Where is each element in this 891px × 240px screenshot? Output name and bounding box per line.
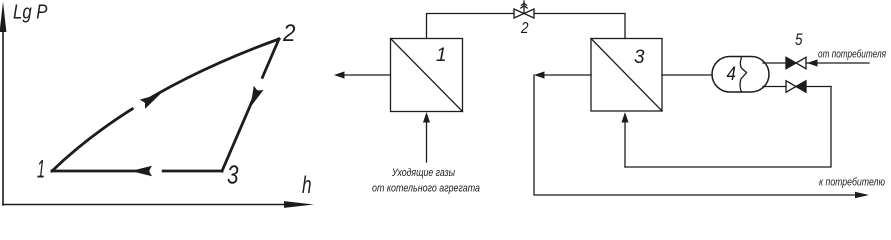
wire down and to consumer arrow — [534, 75, 857, 195]
wire from exchanger 1 to valve 2 (top bus left) — [427, 14, 515, 39]
arrowhead to consumer — [855, 192, 869, 198]
arrowhead from consumer — [807, 59, 818, 66]
x-axis h — [3, 204, 288, 206]
wire exchanger 3 to accumulator 4 — [662, 74, 712, 76]
y-axis Lg P — [2, 28, 4, 205]
heat exchanger 3 body — [591, 39, 662, 112]
svg-text:3: 3 — [634, 47, 645, 68]
svg-text:h: h — [302, 172, 312, 199]
svg-text:1: 1 — [37, 156, 45, 184]
flow arrow on curve 1-2 — [134, 89, 163, 112]
wire flue gas inlet below exchanger 1 — [426, 121, 428, 162]
wire valve 5 bottom to return run — [806, 86, 831, 88]
svg-text:Уходящие газы: Уходящие газы — [391, 167, 455, 179]
svg-text:5: 5 — [795, 31, 803, 49]
arrowhead gas outlet — [334, 71, 345, 78]
heat exchanger 1 diagonal — [391, 39, 463, 112]
svg-text:2: 2 — [520, 20, 529, 37]
svg-text:Lg P: Lg P — [13, 2, 48, 24]
process line 3-1 — [52, 170, 222, 173]
arrowhead flue gas inlet — [423, 112, 430, 123]
arrowhead supply out — [534, 71, 545, 78]
x-axis arrowhead — [284, 201, 314, 208]
wire accumulator to valve 5 bottom — [763, 86, 786, 88]
accumulator 4 level wave — [740, 57, 746, 92]
accumulator 4 body — [712, 57, 769, 93]
wire return bottom run — [625, 87, 831, 168]
wire from consumer — [806, 62, 869, 64]
svg-text:от котельного агрегата: от котельного агрегата — [372, 183, 480, 195]
flow arrow on line 2-3 — [245, 80, 266, 109]
valve 2 body — [514, 9, 534, 18]
heat exchanger 3 diagonal — [591, 39, 662, 112]
wire gas outlet left of exchanger 1 — [343, 74, 391, 76]
svg-text:2: 2 — [282, 20, 295, 47]
process line 2-3 — [222, 39, 279, 171]
svg-text:1: 1 — [436, 45, 447, 66]
heat exchanger 1 body — [391, 39, 463, 112]
arrowhead return inlet — [622, 112, 629, 123]
process curve 1-2 — [52, 39, 279, 171]
y-axis arrowhead — [0, 2, 6, 33]
wire from valve 2 to exchanger 3 (top bus right) — [534, 14, 625, 39]
valve 5 bottom body — [786, 81, 806, 92]
svg-text:к потребителю: к потребителю — [819, 177, 885, 189]
flow arrow on line 3-1 — [131, 166, 159, 177]
wire accumulator to valve 5 top — [763, 62, 786, 64]
valve 5 top body — [786, 57, 806, 68]
svg-text:4: 4 — [727, 64, 737, 85]
wire supply out of exchanger 3 (left, to consumer) — [543, 74, 591, 76]
svg-text:3: 3 — [227, 160, 239, 190]
valve 2 actuator stem — [521, 1, 527, 14]
svg-text:от потребителя: от потребителя — [818, 49, 886, 61]
wire return into exchanger 3 bottom — [624, 121, 626, 167]
